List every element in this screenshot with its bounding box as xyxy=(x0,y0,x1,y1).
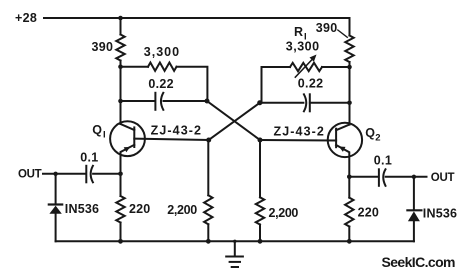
svg-text:220: 220 xyxy=(358,205,379,219)
svg-text:Q: Q xyxy=(92,123,102,137)
svg-text:390: 390 xyxy=(316,21,338,35)
svg-text:0.22: 0.22 xyxy=(148,77,174,91)
svg-text:OUT: OUT xyxy=(18,168,42,180)
svg-text:0.1: 0.1 xyxy=(374,154,392,168)
svg-text:ZJ-43-2: ZJ-43-2 xyxy=(151,124,202,138)
svg-text:IN536: IN536 xyxy=(65,202,99,216)
svg-text:0.1: 0.1 xyxy=(80,151,98,165)
svg-text:ZJ-43-2: ZJ-43-2 xyxy=(274,124,325,138)
svg-text:0.22: 0.22 xyxy=(298,76,324,90)
svg-text:3,300: 3,300 xyxy=(144,45,180,59)
svg-text:3,300: 3,300 xyxy=(286,39,320,53)
svg-text:R: R xyxy=(294,25,303,39)
svg-text:2: 2 xyxy=(375,132,381,143)
svg-text:2,200: 2,200 xyxy=(167,203,197,217)
svg-text:Q: Q xyxy=(365,126,375,140)
svg-text:+28: +28 xyxy=(15,11,37,25)
svg-text:IN536: IN536 xyxy=(423,207,457,221)
svg-text:I: I xyxy=(103,130,106,141)
svg-text:390: 390 xyxy=(92,40,114,54)
svg-text:OUT: OUT xyxy=(431,172,455,184)
svg-text:220: 220 xyxy=(129,202,150,216)
svg-text:SeekIC.com: SeekIC.com xyxy=(382,254,456,270)
svg-text:2,200: 2,200 xyxy=(269,206,299,220)
